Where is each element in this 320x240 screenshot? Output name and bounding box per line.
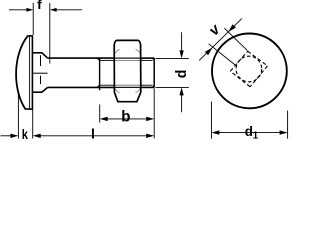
dimension b left extension line — [99, 105, 101, 123]
thread minor line through nut bottom — [114, 84, 141, 86]
bolt end chamfer bottom — [152, 85, 154, 87]
bolt head top edge — [28, 35, 34, 37]
dimension d1 left arrowhead — [211, 130, 219, 134]
thread runout diagonal top — [97, 58, 100, 60]
svg-text:d: d — [173, 70, 190, 79]
hex nut outline — [114, 40, 141, 101]
hex nut chamfer arc top right — [136, 49, 141, 54]
dimension b dimension line — [103, 118, 150, 120]
dimension d1 dimension line — [215, 132, 284, 134]
dimension v extension tick 1 — [209, 44, 237, 66]
shank bottom line — [48, 86, 115, 88]
svg-text:l: l — [91, 126, 95, 142]
bolt end line — [153, 58, 155, 87]
dimension v arrow 1 — [205, 48, 213, 56]
square neck top edge — [32, 53, 47, 58]
thread start line — [99, 57, 101, 90]
thread minor bottom right of nut — [141, 84, 153, 86]
dimension l line with arrows — [33, 134, 155, 138]
hex nut chamfer arc top left — [115, 49, 120, 54]
svg-text:f: f — [37, 0, 42, 12]
dimension d bottom arrow — [179, 87, 183, 112]
thread minor line bottom left of nut — [99, 84, 114, 86]
dimension k left extension line — [17, 93, 19, 139]
dimension d top extension line — [155, 57, 188, 59]
thread runout diagonal bottom — [97, 85, 100, 87]
dimension d1 right arrowhead — [280, 130, 288, 134]
thread major line through nut top — [114, 57, 141, 59]
end view hidden square (dashed) — [230, 51, 267, 87]
dimension v extension tick 2 — [224, 28, 247, 50]
bolt head dome arc — [16, 36, 28, 109]
dimension b right arrowhead — [146, 117, 154, 121]
dimension v arrow 2 — [228, 24, 236, 32]
svg-text:v: v — [206, 20, 225, 39]
svg-text:b: b — [121, 109, 130, 126]
svg-text:1: 1 — [253, 131, 259, 142]
dimension k outside arrow — [1, 134, 19, 138]
dimension f right arrow — [50, 8, 82, 12]
dimension f left extension line — [32, 3, 34, 35]
dimension v dimension line — [199, 19, 242, 61]
dimension l right extension line — [153, 88, 155, 138]
end view hidden shank circle (dashed) — [236, 56, 262, 82]
dimension f left arrow — [9, 8, 33, 12]
thread major bottom right of nut — [141, 86, 154, 88]
bolt head back face — [31, 36, 33, 109]
dimension d1 left extension line — [210, 102, 212, 139]
dimension k right extension line (shared with l) — [32, 110, 34, 139]
dimension d1 right extension line — [287, 111, 289, 139]
end view head circle — [212, 34, 287, 109]
shank top line — [48, 57, 115, 59]
square neck ridge line — [32, 72, 47, 74]
square neck hidden edge dashes — [40, 55, 42, 84]
thread major top right of nut — [141, 57, 154, 59]
dimension d top arrow — [179, 32, 183, 58]
thread major line through nut bottom — [114, 86, 141, 88]
svg-text:k: k — [22, 126, 28, 142]
dimension f right extension line — [49, 3, 51, 64]
bolt head rim line — [29, 37, 31, 109]
bolt end chamfer top — [152, 58, 154, 60]
thread minor line top left of nut — [99, 59, 114, 61]
hex nut chamfer arc bottom right — [136, 88, 141, 93]
dimension b left arrowhead — [100, 117, 108, 121]
dimension d bottom extension line — [155, 86, 188, 88]
thread minor top right of nut — [141, 59, 153, 61]
square neck bottom edge — [32, 87, 47, 92]
hex nut chamfer arc bottom left — [115, 88, 120, 93]
bolt head bottom edge — [25, 108, 33, 110]
thread minor line through nut top — [114, 59, 141, 61]
